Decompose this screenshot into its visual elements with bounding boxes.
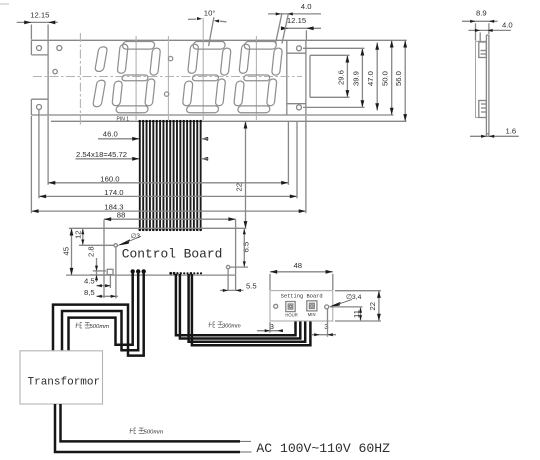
dim 8.5 bbox=[84, 288, 118, 298]
label wire length 300mm (right harness) bbox=[209, 322, 241, 330]
centerline digit 8 no.3 bbox=[255, 36, 257, 120]
dim 160.0 bbox=[48, 116, 288, 185]
centerline colon bbox=[167, 36, 169, 120]
colon lower dot bbox=[164, 92, 168, 96]
dim 4.0 top-right bbox=[268, 2, 321, 15]
svg-text:8,5: 8,5 bbox=[84, 288, 95, 297]
side view body outline bbox=[476, 41, 487, 117]
hole right section top bbox=[297, 46, 302, 51]
svg-text:56.0: 56.0 bbox=[394, 71, 403, 86]
svg-text:174.0: 174.0 bbox=[104, 188, 123, 197]
svg-text:2.8: 2.8 bbox=[87, 246, 96, 257]
wire 6 bbox=[189, 274, 306, 342]
digit 8 no.2 bbox=[182, 42, 232, 113]
svg-text:12: 12 bbox=[74, 230, 83, 239]
svg-text:39.9: 39.9 bbox=[351, 71, 360, 86]
hole left tab bottom bbox=[37, 105, 42, 110]
svg-text:88: 88 bbox=[117, 210, 126, 219]
svg-text:6.5: 6.5 bbox=[242, 242, 251, 253]
dim 46.0 bbox=[98, 130, 209, 141]
dim 1.6 bbox=[470, 127, 519, 138]
svg-text:Setting Board: Setting Board bbox=[281, 293, 323, 299]
wire 4 bbox=[176, 274, 296, 335]
svg-text:50.0: 50.0 bbox=[381, 71, 390, 86]
svg-text:4.0: 4.0 bbox=[502, 20, 513, 29]
dim 8.9 bbox=[462, 8, 498, 40]
AC wire upper bbox=[61, 404, 241, 441]
svg-text:160.0: 160.0 bbox=[100, 174, 119, 183]
panel top edge (extended right as dim extension) bbox=[31, 39, 406, 41]
phi 3.4 label and leader bbox=[329, 294, 362, 307]
svg-text:∅3,4: ∅3,4 bbox=[346, 294, 362, 301]
svg-text:HOUR: HOUR bbox=[285, 313, 297, 318]
panel left edge bbox=[47, 40, 49, 115]
dim 5.5 bbox=[220, 282, 257, 292]
hole 3mm top-left bbox=[114, 244, 117, 247]
svg-text:12.15: 12.15 bbox=[30, 11, 49, 20]
button HOUR bbox=[286, 302, 295, 312]
left mounting tab top bbox=[30, 40, 32, 55]
wire 1 bbox=[69, 272, 133, 350]
svg-text:500mm: 500mm bbox=[144, 430, 164, 436]
svg-text:22: 22 bbox=[235, 183, 244, 192]
dim 50.0 bbox=[381, 40, 394, 115]
hole left bbox=[274, 304, 278, 308]
svg-text:45: 45 bbox=[62, 247, 71, 256]
centerline digit 8 no.1 bbox=[135, 36, 137, 120]
dim 6.5 (right side of board) bbox=[242, 228, 251, 267]
hole panel top left bbox=[57, 46, 62, 51]
svg-text:12.15: 12.15 bbox=[287, 16, 306, 25]
svg-text:AC 100V~110V 60HZ: AC 100V~110V 60HZ bbox=[256, 441, 390, 456]
control board top edge (with extensions) bbox=[69, 227, 246, 229]
dim 2.54x18=45.72 bbox=[76, 150, 209, 161]
left mounting tab bottom bbox=[30, 99, 32, 115]
panel pcb lower edge line bbox=[51, 120, 407, 122]
dim 10 degrees bbox=[188, 9, 227, 46]
dim 48 (setting board width) bbox=[270, 261, 333, 290]
dim 39.9 bbox=[303, 48, 365, 107]
control board left edge / extension bbox=[103, 220, 105, 299]
dim 3 (left of setting board) bbox=[257, 322, 283, 333]
hole bottom-right of board bbox=[226, 265, 229, 268]
dim 56.0 bbox=[394, 40, 407, 121]
dim 88 bbox=[104, 210, 236, 221]
dim 4.0 (side view) bbox=[468, 20, 512, 41]
right tab bottom line bbox=[287, 103, 306, 105]
terminal dots right group bbox=[169, 272, 202, 275]
stray scan mark top-left bbox=[0, 3, 9, 4]
solder square pad left bbox=[107, 269, 113, 274]
dim 29.6 bbox=[310, 55, 350, 97]
dim 22 (ribbon) bbox=[235, 121, 248, 228]
svg-text:4.0: 4.0 bbox=[301, 2, 312, 11]
svg-text:MIN: MIN bbox=[308, 312, 316, 317]
centerline horizontal through digits bbox=[33, 76, 302, 78]
dim 12.15 top-right bbox=[276, 13, 322, 44]
control board bottom edge (with left extension) bbox=[66, 274, 236, 276]
svg-text:Control Board: Control Board bbox=[122, 246, 223, 261]
dim 22 (setting board height) bbox=[335, 291, 381, 321]
dim 12 bbox=[74, 228, 114, 245]
label wire length 500mm (left harness) bbox=[76, 323, 110, 331]
panel bottom edge (extended right) bbox=[31, 114, 393, 116]
pcb edge lines bbox=[485, 35, 487, 136]
svg-text:47.0: 47.0 bbox=[366, 71, 375, 86]
terminal dots left group bbox=[131, 269, 135, 273]
svg-text:Transformor: Transformor bbox=[28, 376, 101, 388]
dim 3 (below setting board right) bbox=[312, 309, 336, 337]
dim 184.3 bbox=[31, 116, 306, 213]
slant extension lines (digit tilt) bbox=[276, 13, 283, 44]
button MIN bbox=[307, 301, 317, 311]
svg-text:5.5: 5.5 bbox=[246, 282, 257, 291]
bottom block bbox=[479, 101, 487, 118]
hole panel mid left bbox=[53, 69, 57, 73]
svg-text:10°: 10° bbox=[204, 9, 216, 18]
svg-text:8.9: 8.9 bbox=[476, 8, 487, 17]
svg-text:29.6: 29.6 bbox=[337, 70, 346, 85]
svg-text:46.0: 46.0 bbox=[103, 130, 118, 139]
hole right section bottom bbox=[297, 105, 302, 110]
dim 4.5 bbox=[84, 277, 111, 288]
svg-text:48: 48 bbox=[294, 261, 303, 270]
wire 2 bbox=[62, 272, 138, 350]
dim 12.15 top-left bbox=[17, 11, 58, 40]
wire 7 bbox=[192, 274, 311, 345]
wire 3 bbox=[53, 272, 144, 356]
wire 5 bbox=[180, 274, 300, 339]
svg-text:2.54x18=45.72: 2.54x18=45.72 bbox=[76, 150, 127, 159]
colon upper dot bbox=[168, 56, 172, 60]
panel right section divider bbox=[286, 40, 288, 115]
ribbon cable (19 conductors, pin header to control board) bbox=[138, 120, 202, 231]
svg-text:4.5: 4.5 bbox=[84, 277, 95, 286]
digit 1 (half digit, segments b and c) bbox=[93, 47, 108, 107]
digit 8 no.3 bbox=[233, 42, 283, 113]
dim 11 bbox=[330, 307, 363, 321]
panel right edge bbox=[305, 40, 307, 115]
right tab top line bbox=[287, 52, 306, 54]
centerline digit 8 no.2 / 10deg reference bbox=[202, 18, 204, 120]
svg-text:300mm: 300mm bbox=[222, 323, 241, 329]
AC wire lower bbox=[55, 404, 240, 452]
dim 45 (left of control board) bbox=[62, 228, 74, 275]
dim 47.0 bbox=[366, 43, 379, 111]
label wire length 500mm (AC cord) bbox=[130, 428, 164, 436]
dim 174.0 bbox=[39, 110, 297, 198]
hole right (3.4mm) bbox=[325, 305, 329, 309]
top block bbox=[479, 42, 487, 58]
right slot edge bbox=[309, 55, 311, 97]
svg-text:1.6: 1.6 bbox=[506, 127, 517, 136]
centerline vertical left bbox=[79, 33, 81, 126]
digit 8 no.1 bbox=[111, 42, 161, 113]
svg-text:PIN 1: PIN 1 bbox=[117, 116, 130, 122]
svg-text:500mm: 500mm bbox=[90, 324, 110, 330]
hole left tab top bbox=[37, 46, 42, 51]
dim 2.8 bbox=[87, 246, 98, 282]
svg-text:22: 22 bbox=[368, 302, 377, 311]
control board right edge / extension bbox=[235, 220, 237, 292]
